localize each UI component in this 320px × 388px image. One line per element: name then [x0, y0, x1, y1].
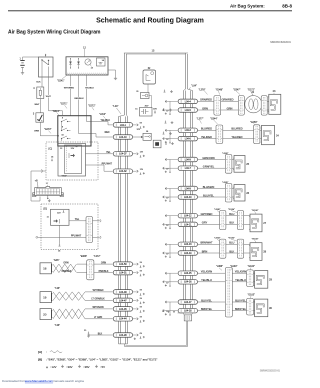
- svg-text:BLU/GRN: BLU/GRN: [203, 185, 215, 189]
- svg-text:L04-18: L04-18: [184, 310, 192, 313]
- svg-text:: 12V: : 12V: [50, 365, 57, 369]
- svg-text:YEL/BLU: YEL/BLU: [235, 278, 246, 282]
- svg-text:: 36V: : 36V: [83, 365, 90, 369]
- svg-text:27: 27: [263, 221, 266, 225]
- svg-text:20: 20: [43, 313, 47, 317]
- svg-text:"G103": "G103": [252, 239, 259, 241]
- svg-text:"G271": "G271": [60, 104, 68, 106]
- svg-text:18: 18: [43, 267, 47, 271]
- svg-text:"E46": "E46": [54, 260, 60, 262]
- svg-text:"G100": "G100": [248, 266, 256, 268]
- svg-text:19: 19: [43, 296, 47, 300]
- svg-text:L04-12: L04-12: [184, 215, 192, 218]
- svg-text:L04-3: L04-3: [185, 129, 192, 132]
- svg-text:L04-11: L04-11: [184, 223, 192, 226]
- svg-text:Schematic and Routing Diagram: Schematic and Routing Diagram: [96, 18, 204, 25]
- svg-text:L04-37: L04-37: [119, 153, 127, 156]
- svg-text:L04-50: L04-50: [119, 263, 127, 266]
- svg-text:"G048": "G048": [216, 90, 224, 92]
- svg-text:YEL: YEL: [75, 219, 80, 221]
- svg-text:BLU/RED: BLU/RED: [201, 127, 212, 131]
- svg-text:GRN: GRN: [34, 131, 39, 133]
- svg-text:L04-5: L04-5: [185, 109, 192, 112]
- svg-text:BLK: BLK: [98, 333, 103, 335]
- svg-text:L04-32: L04-32: [119, 170, 127, 173]
- svg-text:"G347": "G347": [233, 90, 241, 92]
- svg-text:"E368": "E368": [80, 256, 87, 258]
- svg-text:GRN/ORN: GRN/ORN: [202, 156, 214, 160]
- svg-text:"E324": "E324": [53, 111, 60, 113]
- svg-text:L04-48: L04-48: [119, 291, 127, 294]
- svg-text:BRN/YEL: BRN/YEL: [201, 307, 213, 311]
- svg-text:"G100": "G100": [252, 210, 259, 212]
- svg-text:[A]: [A]: [38, 350, 42, 354]
- svg-text:26: 26: [246, 191, 249, 195]
- svg-text:YEL/GRN: YEL/GRN: [201, 270, 213, 274]
- svg-text:30V: 30V: [153, 109, 157, 111]
- svg-text:S6RW0C8202001: S6RW0C8202001: [270, 40, 291, 44]
- svg-text:BRN/WHT: BRN/WHT: [200, 241, 213, 245]
- svg-text:PNK/BLK: PNK/BLK: [99, 271, 109, 273]
- svg-text:BLU: BLU: [229, 212, 234, 216]
- svg-text:GRN/RED: GRN/RED: [222, 98, 234, 102]
- svg-text:L04-9: L04-9: [185, 158, 192, 161]
- svg-text:L04-44: L04-44: [119, 318, 127, 321]
- svg-text:"G130": "G130": [230, 266, 238, 268]
- svg-text:L04-45: L04-45: [119, 308, 127, 311]
- svg-text:30V: 30V: [145, 105, 149, 107]
- svg-text:PPL/WHT: PPL/WHT: [102, 163, 113, 165]
- svg-text:L04-28: L04-28: [119, 334, 127, 337]
- svg-text:[D]: [D]: [44, 207, 48, 211]
- svg-text:ORN: ORN: [63, 262, 68, 264]
- svg-text:L04-7: L04-7: [185, 167, 192, 170]
- svg-text:ORN: ORN: [101, 262, 106, 264]
- svg-text:29: 29: [269, 277, 272, 281]
- svg-text:"L377": "L377": [197, 118, 204, 120]
- svg-text:RED/BLK: RED/BLK: [74, 98, 84, 100]
- svg-text:YEL: YEL: [106, 152, 111, 154]
- svg-text:YEL/BLK: YEL/BLK: [85, 87, 94, 89]
- svg-text:YEL/BLU: YEL/BLU: [201, 278, 212, 282]
- svg-text:L04-14: L04-14: [184, 252, 192, 255]
- svg-text:"L313": "L313": [99, 114, 106, 116]
- svg-text:12V: 12V: [57, 213, 61, 215]
- svg-text:BLK/YEL: BLK/YEL: [235, 298, 246, 302]
- svg-text:BRN/YEL: BRN/YEL: [235, 307, 247, 311]
- svg-text:GRN/RED: GRN/RED: [200, 98, 212, 102]
- svg-text:GRN/YEL: GRN/YEL: [203, 165, 215, 169]
- svg-text:L04-6: L04-6: [185, 138, 192, 141]
- svg-text:"L36": "L36": [55, 288, 61, 290]
- svg-text:[B]: [B]: [38, 357, 42, 361]
- svg-text:WHT/RED: WHT/RED: [64, 87, 75, 89]
- svg-text:RED: RED: [105, 132, 110, 134]
- svg-text:L04-10: L04-10: [184, 196, 192, 199]
- svg-text:L04-1: L04-1: [120, 124, 127, 127]
- svg-text:BLK: BLK: [36, 81, 41, 83]
- svg-text:"L04": "L04": [113, 105, 119, 108]
- svg-text:BLU/YEL: BLU/YEL: [203, 193, 214, 197]
- svg-text:YEL/GRN: YEL/GRN: [235, 270, 247, 274]
- svg-text:: 5V: : 5V: [100, 365, 105, 369]
- svg-text:L04-16: L04-16: [184, 281, 192, 284]
- svg-text:"G04": "G04": [62, 176, 67, 178]
- svg-text:"L372": "L372": [94, 256, 101, 258]
- svg-text:[C]: [C]: [49, 147, 53, 151]
- svg-text:YEL/RED: YEL/RED: [231, 135, 242, 139]
- svg-text:L04-15: L04-15: [184, 272, 192, 275]
- svg-text:WHT/GRN: WHT/GRN: [92, 307, 103, 309]
- svg-text:Air Bag System Wiring Circuit: Air Bag System Wiring Circuit Diagram: [8, 30, 101, 36]
- svg-text:"G273": "G273": [44, 129, 52, 131]
- svg-text:LT GRN: LT GRN: [94, 317, 103, 319]
- svg-text:"L36": "L36": [55, 325, 61, 327]
- svg-text:12V: 12V: [71, 148, 75, 150]
- svg-text:"G103": "G103": [248, 294, 256, 296]
- svg-text:L04-9: L04-9: [185, 187, 192, 190]
- svg-text:S6RW0C8202S-01: S6RW0C8202S-01: [260, 370, 281, 373]
- svg-text:YEL/RED: YEL/RED: [201, 135, 212, 139]
- svg-text:GRY/RED: GRY/RED: [201, 212, 213, 216]
- svg-text:GRY: GRY: [202, 221, 208, 225]
- svg-text:manuals search engine: manuals search engine: [53, 379, 84, 383]
- svg-text:www.Manualslib.com: www.Manualslib.com: [25, 379, 54, 383]
- svg-text:"G241": "G241": [57, 81, 65, 83]
- svg-text:"G272": "G272": [88, 106, 96, 108]
- svg-text:+B: +B: [35, 180, 38, 182]
- svg-text:L04-47: L04-47: [119, 299, 127, 302]
- svg-text:PNK/BLK: PNK/BLK: [62, 271, 72, 273]
- svg-text:LT GRN/BLK: LT GRN/BLK: [91, 299, 105, 301]
- svg-text:30: 30: [269, 306, 272, 310]
- svg-text:"L04": "L04": [191, 85, 197, 88]
- svg-text:BLK/YEL: BLK/YEL: [201, 298, 212, 302]
- svg-text:BLK: BLK: [229, 221, 234, 225]
- svg-text:Air Bag System:: Air Bag System:: [230, 3, 265, 8]
- svg-text:: 30V: : 30V: [66, 365, 73, 369]
- svg-text:L04-13: L04-13: [184, 243, 192, 246]
- svg-text:WHT/RED: WHT/RED: [93, 290, 104, 292]
- svg-text:BLK: BLK: [229, 249, 234, 253]
- svg-text:BLU/RED: BLU/RED: [231, 127, 242, 131]
- svg-text:28: 28: [263, 250, 266, 254]
- svg-text:L04-4: L04-4: [185, 100, 192, 103]
- svg-text:25: 25: [246, 162, 249, 166]
- svg-text:BRN: BRN: [202, 249, 208, 253]
- svg-text:8B-8: 8B-8: [282, 3, 292, 8]
- svg-text:PPL/WHT: PPL/WHT: [71, 236, 82, 238]
- svg-text:L04-10: L04-10: [119, 136, 127, 139]
- svg-text:: "E45", "E368", "G04" ~ "E368: : "E45", "E368", "G04" ~ "E368", "L04" ~…: [46, 357, 157, 361]
- svg-text:BLU: BLU: [229, 241, 234, 245]
- svg-text:YEL/BLK: YEL/BLK: [101, 120, 111, 122]
- svg-text:L04-17: L04-17: [184, 301, 192, 304]
- svg-text:L04-51: L04-51: [119, 272, 127, 275]
- svg-text:WHT: WHT: [46, 96, 52, 98]
- svg-text:WHT: WHT: [35, 104, 41, 106]
- svg-text:Downloaded from: Downloaded from: [2, 379, 26, 383]
- svg-text:GRN: GRN: [202, 106, 208, 110]
- svg-text:GRN: GRN: [227, 106, 233, 110]
- svg-text:"L388": "L388": [216, 266, 223, 268]
